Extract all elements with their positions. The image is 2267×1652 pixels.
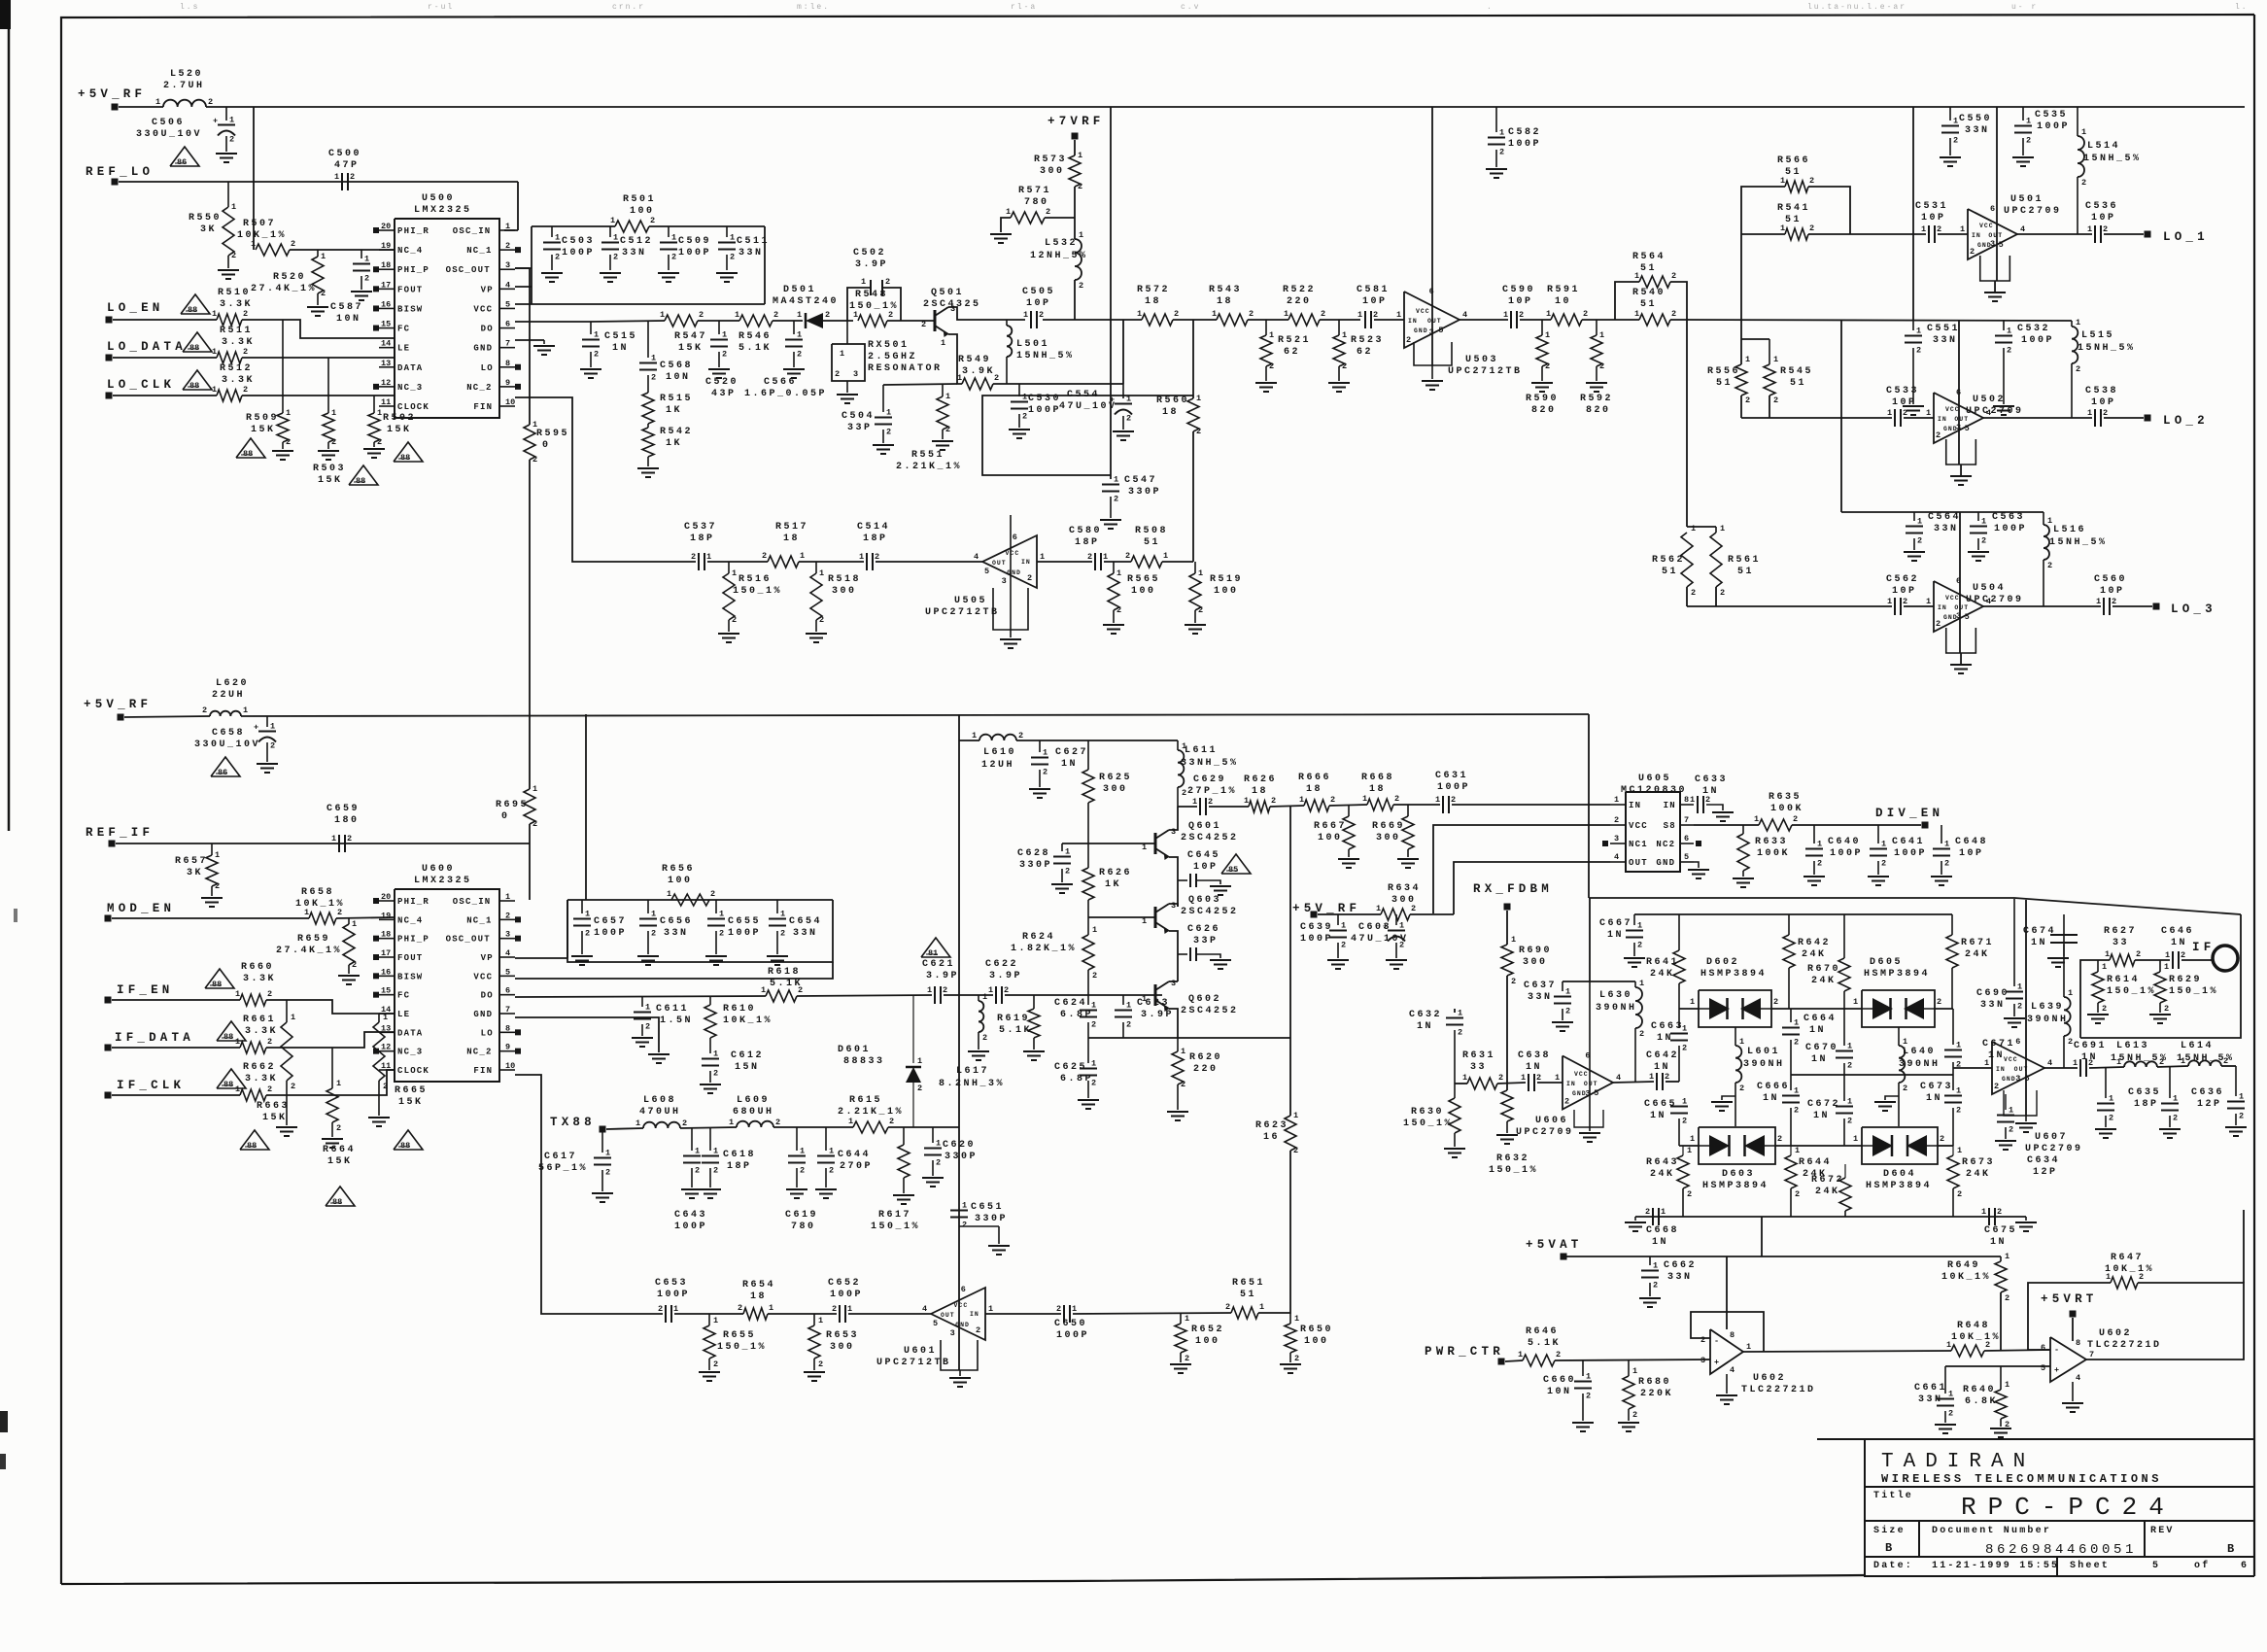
svg-text:220K: 220K xyxy=(1640,1389,1673,1399)
svg-text:2: 2 xyxy=(2239,1112,2244,1121)
svg-text:UPC2712TB: UPC2712TB xyxy=(876,1358,951,1368)
wire R507 to pin19 xyxy=(290,249,395,251)
svg-text:1: 1 xyxy=(1690,997,1695,1007)
svg-text:m:le.: m:le. xyxy=(797,3,830,12)
svg-text:2: 2 xyxy=(2139,1272,2144,1282)
svg-text:2: 2 xyxy=(243,347,248,357)
svg-text:81: 81 xyxy=(928,948,938,958)
svg-text:2: 2 xyxy=(1916,346,1921,356)
svg-text:1: 1 xyxy=(853,310,858,320)
svg-text:C563: C563 xyxy=(1992,512,2025,523)
svg-text:1: 1 xyxy=(1091,1001,1096,1011)
svg-text:2: 2 xyxy=(1671,271,1676,281)
svg-text:L614: L614 xyxy=(2181,1041,2214,1051)
wire top bus drop to R507 node xyxy=(253,107,255,250)
svg-text:C511: C511 xyxy=(737,236,770,247)
wire R591 to bridge xyxy=(1582,319,1615,321)
wire R522 to C581 xyxy=(1320,319,1360,321)
svg-text:1: 1 xyxy=(286,408,291,418)
svg-text:C512: C512 xyxy=(620,236,653,247)
svg-text:2: 2 xyxy=(1948,1409,1953,1419)
svg-text:1: 1 xyxy=(334,172,339,182)
svg-text:33N: 33N xyxy=(1980,1000,2006,1011)
svg-text:C621: C621 xyxy=(922,959,955,970)
svg-text:33: 33 xyxy=(2112,938,2129,948)
svg-text:1: 1 xyxy=(1181,1047,1185,1056)
svg-text:16: 16 xyxy=(381,967,391,977)
svg-text:C637: C637 xyxy=(1524,981,1557,991)
wire R631 to C638 xyxy=(1497,1083,1526,1084)
svg-text:100P: 100P xyxy=(2037,121,2070,132)
svg-text:L532: L532 xyxy=(1045,238,1078,249)
svg-text:2SC4252: 2SC4252 xyxy=(1181,907,1239,917)
svg-text:2: 2 xyxy=(695,1166,700,1176)
svg-text:1: 1 xyxy=(673,1304,678,1314)
svg-text:220: 220 xyxy=(1193,1064,1219,1075)
svg-text:11-21-1999 15:55: 11-21-1999 15:55 xyxy=(1932,1561,2059,1571)
wire splitter junction down to R556/R545 pair xyxy=(1740,320,1742,364)
svg-text:1: 1 xyxy=(1780,224,1785,233)
svg-text:OSC_OUT: OSC_OUT xyxy=(446,265,491,275)
svg-text:2: 2 xyxy=(1294,1354,1299,1363)
svg-text:R564: R564 xyxy=(1632,252,1666,262)
svg-text:85: 85 xyxy=(1228,865,1238,875)
svg-text:5: 5 xyxy=(1684,852,1689,862)
svg-text:1: 1 xyxy=(1116,568,1121,578)
svg-text:1: 1 xyxy=(671,233,676,243)
svg-text:crn.r: crn.r xyxy=(612,3,645,12)
wire R615 to x987 vertical xyxy=(888,1126,959,1128)
svg-text:C668: C668 xyxy=(1646,1225,1679,1236)
svg-text:R624: R624 xyxy=(1022,932,1055,943)
svg-text:2: 2 xyxy=(1269,361,1274,371)
svg-text:C514: C514 xyxy=(857,522,890,533)
svg-text:B: B xyxy=(1885,1541,1896,1555)
svg-text:3.9P: 3.9P xyxy=(926,971,959,981)
svg-text:27.4K_1%: 27.4K_1% xyxy=(276,946,342,956)
svg-text:C535: C535 xyxy=(2035,110,2068,120)
svg-text:10: 10 xyxy=(1555,296,1571,307)
wire +5V rail drop to U600 VP/VCC feed xyxy=(585,714,587,900)
svg-text:R632: R632 xyxy=(1496,1153,1529,1164)
svg-text:1: 1 xyxy=(957,373,962,383)
svg-text:1: 1 xyxy=(1565,987,1570,997)
svg-text:4: 4 xyxy=(1986,408,1991,418)
svg-text:18P: 18P xyxy=(727,1161,752,1172)
svg-text:R625: R625 xyxy=(1099,773,1132,783)
svg-text:100K: 100K xyxy=(1770,804,1803,814)
svg-text:1: 1 xyxy=(797,330,802,340)
svg-text:1: 1 xyxy=(1745,355,1750,364)
svg-text:2: 2 xyxy=(1174,309,1179,319)
svg-text:+5V_RF: +5V_RF xyxy=(78,87,146,101)
svg-text:R665: R665 xyxy=(395,1085,428,1096)
svg-text:R635: R635 xyxy=(1769,792,1802,803)
wire cluster left vertical xyxy=(1840,321,1842,512)
svg-text:.: . xyxy=(1487,3,1494,12)
svg-text:2: 2 xyxy=(1394,794,1399,804)
svg-text:1: 1 xyxy=(722,330,727,340)
wire box bottom edge / VCC rail xyxy=(515,303,765,305)
svg-text:OUT: OUT xyxy=(1584,1081,1598,1087)
svg-text:27.4K_1%: 27.4K_1% xyxy=(251,284,317,294)
svg-text:12NH_5%: 12NH_5% xyxy=(1030,251,1088,261)
svg-text:C672: C672 xyxy=(1807,1099,1840,1110)
svg-text:3: 3 xyxy=(1002,576,1007,586)
svg-text:R660: R660 xyxy=(241,962,274,973)
svg-text:1.5N: 1.5N xyxy=(660,1015,693,1026)
svg-text:C653: C653 xyxy=(655,1278,688,1289)
svg-text:r-ul: r-ul xyxy=(428,3,454,12)
svg-text:TLC22721D: TLC22721D xyxy=(2087,1340,2162,1351)
svg-text:VCC: VCC xyxy=(1629,821,1648,831)
svg-text:2: 2 xyxy=(682,1119,687,1128)
svg-text:18: 18 xyxy=(1162,407,1179,418)
svg-text:1: 1 xyxy=(2005,1252,2009,1261)
svg-text:330P: 330P xyxy=(975,1214,1008,1224)
svg-text:33N: 33N xyxy=(1965,125,1990,136)
svg-text:100: 100 xyxy=(1304,1336,1329,1347)
svg-text:5: 5 xyxy=(984,567,989,576)
svg-text:100P: 100P xyxy=(1830,848,1863,859)
svg-text:3: 3 xyxy=(1990,239,1995,249)
svg-text:2: 2 xyxy=(1599,361,1604,371)
svg-text:3.9P: 3.9P xyxy=(989,971,1022,981)
svg-text:5: 5 xyxy=(2041,1363,2045,1373)
svg-text:2: 2 xyxy=(889,1117,894,1126)
svg-text:L620: L620 xyxy=(216,678,249,689)
svg-text:6: 6 xyxy=(505,986,510,996)
svg-text:5: 5 xyxy=(1594,1088,1598,1098)
svg-text:17: 17 xyxy=(381,280,391,290)
svg-text:C635: C635 xyxy=(2128,1087,2161,1098)
svg-text:VCC: VCC xyxy=(1574,1071,1589,1078)
svg-text:2: 2 xyxy=(505,241,510,251)
svg-text:R653: R653 xyxy=(826,1330,859,1341)
svg-text:51: 51 xyxy=(1785,167,1802,178)
wire VP pin4 into cap bank box xyxy=(515,286,532,288)
resistor R551 2.21K_1% xyxy=(937,396,948,430)
svg-text:+: + xyxy=(1714,1358,1719,1367)
svg-text:100P: 100P xyxy=(657,1290,690,1300)
svg-text:R656: R656 xyxy=(662,864,695,875)
svg-text:1N: 1N xyxy=(1813,1111,1830,1121)
svg-text:R515: R515 xyxy=(660,394,693,404)
svg-text:NC_2: NC_2 xyxy=(466,383,492,393)
svg-text:+: + xyxy=(213,117,218,126)
svg-text:10N: 10N xyxy=(336,314,361,325)
svg-text:2: 2 xyxy=(1182,788,1186,798)
wire U504 out to C560 xyxy=(1983,605,2101,607)
svg-text:C505: C505 xyxy=(1022,287,1055,297)
svg-text:1: 1 xyxy=(1126,1001,1131,1011)
svg-text:LE: LE xyxy=(397,344,410,354)
svg-text:PHI_R: PHI_R xyxy=(397,897,429,907)
svg-text:2: 2 xyxy=(1022,412,1027,422)
wire R623 to bottom chain xyxy=(1289,1151,1291,1314)
svg-text:33N: 33N xyxy=(1528,992,1553,1003)
resistor R503 pulldown 15K xyxy=(327,358,329,413)
svg-text:13: 13 xyxy=(381,359,391,368)
wire R627 to C646 xyxy=(2135,959,2170,961)
svg-text:3: 3 xyxy=(950,304,955,314)
wire box top edge right segment xyxy=(649,225,765,227)
svg-text:R690: R690 xyxy=(1519,946,1552,956)
svg-text:88: 88 xyxy=(243,449,253,459)
svg-text:2: 2 xyxy=(555,253,560,262)
svg-text:LO: LO xyxy=(481,1028,494,1038)
wire R543 to R522 xyxy=(1248,319,1288,321)
svg-text:C509: C509 xyxy=(678,236,711,247)
svg-text:1: 1 xyxy=(1586,1372,1591,1382)
svg-text:10: 10 xyxy=(505,397,515,407)
svg-text:LO_DATA: LO_DATA xyxy=(107,340,187,354)
svg-text:1: 1 xyxy=(1284,309,1288,319)
svg-text:C641: C641 xyxy=(1892,837,1925,847)
svg-text:FIN: FIN xyxy=(473,402,493,412)
ground U605 GND pin5 xyxy=(1694,862,1699,868)
svg-text:2: 2 xyxy=(1639,1029,1644,1039)
svg-text:2: 2 xyxy=(1225,1302,1230,1312)
svg-text:DO: DO xyxy=(481,991,494,1001)
svg-text:390NH: 390NH xyxy=(2027,1015,2069,1025)
svg-text:L611: L611 xyxy=(1185,745,1218,756)
svg-text:Q602: Q602 xyxy=(1188,994,1221,1005)
svg-text:6.8P: 6.8P xyxy=(1060,1010,1093,1020)
svg-text:10P: 10P xyxy=(1921,213,1946,224)
svg-text:1: 1 xyxy=(1817,840,1822,849)
svg-text:L630: L630 xyxy=(1599,990,1632,1001)
svg-text:2: 2 xyxy=(532,455,537,465)
svg-text:R654: R654 xyxy=(742,1280,775,1291)
net LO_2 xyxy=(2145,415,2151,422)
svg-text:2: 2 xyxy=(1847,1061,1852,1071)
wire R572 to R543 xyxy=(1173,319,1217,321)
triangle flag 86 C658 xyxy=(211,757,240,776)
wire C642 to mixer column xyxy=(1666,1081,1679,1083)
svg-text:2: 2 xyxy=(1198,605,1203,615)
wire bottom rail drop to mixer top rail xyxy=(1588,714,1590,898)
svg-text:7: 7 xyxy=(505,339,510,349)
wire LO splitter up to LO_1 bridge xyxy=(1740,234,1742,320)
svg-text:-: - xyxy=(1714,1336,1719,1346)
wire REF_IF line xyxy=(116,843,530,844)
svg-text:2.21K_1%: 2.21K_1% xyxy=(896,462,962,472)
wire U501 out to C536 xyxy=(2017,233,2092,235)
svg-text:c.v: c.v xyxy=(1181,3,1200,12)
svg-text:OSC_OUT: OSC_OUT xyxy=(446,935,491,945)
svg-text:18P: 18P xyxy=(2134,1099,2159,1110)
svg-text:2: 2 xyxy=(350,172,355,182)
svg-text:R664: R664 xyxy=(323,1145,356,1155)
svg-text:C657: C657 xyxy=(594,916,627,927)
wire main line to LO splitter xyxy=(1687,320,2072,321)
wire output loop up xyxy=(2243,1210,2245,1283)
svg-text:1N: 1N xyxy=(1990,1237,2007,1248)
wire top +5V bus xyxy=(206,106,2245,108)
svg-text:2: 2 xyxy=(1181,1080,1185,1089)
svg-text:B: B xyxy=(2227,1542,2238,1556)
svg-text:1: 1 xyxy=(761,985,766,995)
svg-text:NC_1: NC_1 xyxy=(466,246,492,256)
svg-text:C654: C654 xyxy=(789,916,822,927)
svg-text:2: 2 xyxy=(1795,1189,1800,1199)
svg-text:R618: R618 xyxy=(768,967,801,978)
svg-text:HSMP3894: HSMP3894 xyxy=(1700,969,1767,980)
svg-text:1: 1 xyxy=(2087,224,2092,234)
svg-text:2: 2 xyxy=(1185,1354,1189,1363)
svg-text:18: 18 xyxy=(750,1291,767,1302)
svg-text:1: 1 xyxy=(651,354,656,363)
svg-text:88833: 88833 xyxy=(843,1056,885,1067)
svg-text:1: 1 xyxy=(1720,524,1725,533)
svg-text:2: 2 xyxy=(1091,1020,1096,1030)
svg-text:2: 2 xyxy=(1994,1082,1999,1091)
svg-text:2: 2 xyxy=(1451,795,1456,805)
svg-text:150_1%: 150_1% xyxy=(1489,1165,1538,1176)
svg-text:2: 2 xyxy=(1917,536,1922,546)
svg-text:R673: R673 xyxy=(1962,1157,1995,1168)
wire R646 to U602a xyxy=(1555,1359,1710,1360)
svg-text:C536: C536 xyxy=(2085,201,2118,212)
svg-text:Q501: Q501 xyxy=(931,288,964,298)
triangle flag 88 LO_DATA xyxy=(183,332,212,352)
svg-text:2: 2 xyxy=(2026,136,2031,146)
svg-text:2: 2 xyxy=(994,373,999,383)
svg-text:2: 2 xyxy=(1985,1340,1990,1350)
wire R649 to R648 node xyxy=(2000,1292,2002,1351)
svg-text:1: 1 xyxy=(1078,151,1082,160)
wire C590 to R591 xyxy=(1520,319,1551,321)
svg-text:2: 2 xyxy=(921,320,926,329)
svg-text:100P: 100P xyxy=(1994,524,2027,534)
U606 VCC stub xyxy=(1589,981,1591,1127)
svg-text:2: 2 xyxy=(886,428,891,437)
svg-text:1: 1 xyxy=(1518,1350,1523,1359)
svg-text:C623: C623 xyxy=(1137,998,1170,1009)
svg-text:100P: 100P xyxy=(1437,782,1470,793)
svg-text:51: 51 xyxy=(1785,215,1802,225)
svg-text:1: 1 xyxy=(1259,1302,1264,1312)
svg-text:470UH: 470UH xyxy=(639,1107,681,1118)
svg-text:2: 2 xyxy=(1087,552,1092,562)
svg-text:C644: C644 xyxy=(838,1150,871,1160)
svg-text:2: 2 xyxy=(1809,176,1814,186)
wire U602a out to R648 xyxy=(1743,1351,1951,1352)
svg-text:2: 2 xyxy=(347,834,352,843)
svg-text:2: 2 xyxy=(1745,396,1750,405)
svg-text:17: 17 xyxy=(381,948,391,958)
svg-text:33N: 33N xyxy=(1934,524,1959,534)
svg-text:2: 2 xyxy=(1586,1392,1591,1401)
svg-text:U500: U500 xyxy=(422,193,455,204)
svg-text:2: 2 xyxy=(943,985,947,995)
svg-text:33N: 33N xyxy=(738,248,764,258)
svg-text:LO: LO xyxy=(481,363,494,373)
svg-text:R590: R590 xyxy=(1526,394,1559,404)
svg-text:1: 1 xyxy=(532,420,537,430)
svg-text:U606: U606 xyxy=(1535,1116,1568,1126)
svg-text:NC_2: NC_2 xyxy=(466,1048,492,1057)
svg-text:LO_EN: LO_EN xyxy=(107,301,164,315)
wire C650 to R651 xyxy=(1073,1313,1231,1314)
svg-text:2: 2 xyxy=(936,1158,941,1168)
svg-text:VCC: VCC xyxy=(473,304,493,314)
ground below R542 xyxy=(637,467,659,469)
svg-text:R617: R617 xyxy=(878,1210,911,1221)
svg-text:1: 1 xyxy=(1293,1111,1298,1120)
svg-text:2: 2 xyxy=(1956,1106,1961,1116)
svg-text:100: 100 xyxy=(1318,833,1343,843)
svg-text:33N: 33N xyxy=(664,928,689,939)
svg-text:Title: Title xyxy=(1873,1490,1913,1501)
svg-text:2: 2 xyxy=(286,437,291,447)
svg-text:2: 2 xyxy=(1903,408,1907,418)
svg-text:2: 2 xyxy=(1065,867,1070,877)
svg-text:2: 2 xyxy=(1981,536,1986,546)
svg-text:L609: L609 xyxy=(737,1095,770,1106)
wire C514 to U505 output xyxy=(876,561,982,563)
svg-text:R518: R518 xyxy=(828,574,861,585)
wire LO_CLK to CLOCK pin11 xyxy=(242,395,395,396)
svg-text:5.1K: 5.1K xyxy=(738,343,772,354)
svg-text:1: 1 xyxy=(1780,176,1785,186)
svg-text:C531: C531 xyxy=(1915,201,1948,212)
svg-text:5: 5 xyxy=(1965,612,1970,622)
wire R560 to feedback chain xyxy=(1192,431,1194,562)
svg-text:5: 5 xyxy=(505,299,510,309)
svg-text:1: 1 xyxy=(505,892,510,902)
svg-text:1: 1 xyxy=(304,908,309,917)
svg-text:R545: R545 xyxy=(1780,366,1813,377)
svg-text:1: 1 xyxy=(1182,741,1186,751)
wire R666 to R668 xyxy=(1329,805,1367,806)
svg-text:U504: U504 xyxy=(1973,583,2006,594)
svg-text:18: 18 xyxy=(1252,786,1268,797)
svg-text:2: 2 xyxy=(945,425,950,434)
svg-text:2: 2 xyxy=(1293,1146,1298,1155)
svg-text:1: 1 xyxy=(1926,597,1931,606)
svg-text:1: 1 xyxy=(1022,393,1027,402)
svg-text:C580: C580 xyxy=(1069,526,1102,536)
svg-text:3: 3 xyxy=(1614,834,1619,843)
svg-text:C640: C640 xyxy=(1828,837,1861,847)
svg-text:2: 2 xyxy=(2076,364,2080,374)
svg-text:R669: R669 xyxy=(1372,821,1405,832)
svg-text:51: 51 xyxy=(1716,378,1733,389)
svg-text:R551: R551 xyxy=(911,450,945,461)
svg-text:24K: 24K xyxy=(1815,1187,1840,1197)
svg-text:1: 1 xyxy=(1956,1041,1961,1050)
wire U605 S8 pin7 to R635 xyxy=(1694,824,1759,826)
svg-text:FOUT: FOUT xyxy=(397,285,423,294)
svg-text:C636: C636 xyxy=(2191,1087,2224,1098)
svg-text:1: 1 xyxy=(667,889,671,899)
svg-text:U605: U605 xyxy=(1638,774,1671,784)
svg-text:1: 1 xyxy=(2105,949,2110,959)
svg-text:R633: R633 xyxy=(1755,837,1788,847)
svg-text:R640: R640 xyxy=(1963,1385,1996,1395)
svg-text:10K_1%: 10K_1% xyxy=(1951,1332,2001,1343)
svg-text:C633: C633 xyxy=(1695,774,1728,785)
svg-text:1: 1 xyxy=(1435,795,1440,805)
svg-text:D601: D601 xyxy=(838,1045,871,1055)
svg-text:C619: C619 xyxy=(785,1210,818,1221)
wire L610 row xyxy=(959,740,979,741)
svg-text:4: 4 xyxy=(1462,310,1467,320)
wire D501 to R548 xyxy=(823,320,853,322)
svg-text:R695: R695 xyxy=(496,800,529,810)
